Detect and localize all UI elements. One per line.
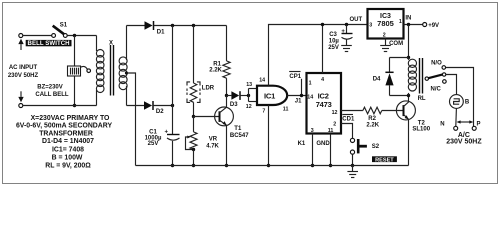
wire base node to VR	[193, 117, 195, 132]
resistor R1	[209, 61, 230, 78]
node junction bell top	[73, 34, 76, 37]
wire pole to bulb	[446, 75, 457, 95]
label C3 value	[328, 32, 339, 51]
svg-text:4: 4	[321, 77, 324, 83]
bell BZ	[68, 66, 91, 76]
node junction C1 ground	[171, 164, 174, 167]
node N terminal	[440, 121, 457, 130]
wire LDR to base node	[193, 102, 195, 116]
node junction relay feed	[407, 23, 410, 26]
wire COM stub	[385, 39, 387, 46]
wire S1 to transformer primary	[67, 35, 96, 37]
node junction IC1 inputs	[247, 94, 250, 97]
wire N/O to P terminal	[446, 68, 474, 127]
transformer X secondary	[119, 26, 127, 106]
svg-text:T1: T1	[234, 126, 242, 132]
svg-text:LDR: LDR	[202, 85, 215, 91]
wire D3 to IC1 inputs	[240, 95, 249, 97]
svg-text:X=230VAC PRIMARY TO: X=230VAC PRIMARY TO	[31, 115, 110, 122]
svg-text:IC1= 7408: IC1= 7408	[52, 146, 84, 153]
label AC INPUT	[8, 65, 39, 79]
svg-text:K1: K1	[298, 141, 306, 147]
svg-text:COM: COM	[389, 41, 403, 47]
svg-text:GND: GND	[316, 141, 330, 147]
LDR	[187, 82, 215, 103]
capacitor C3	[341, 25, 352, 46]
wire bulb to N terminal	[455, 108, 458, 126]
node junction pin4 rail	[321, 23, 324, 26]
svg-text:+: +	[341, 29, 345, 35]
svg-text:J1: J1	[295, 99, 302, 105]
node P terminal	[472, 121, 480, 130]
svg-text:R1: R1	[213, 61, 221, 67]
transistor T2	[396, 96, 430, 166]
voltage regulator IC3 7805	[368, 9, 404, 39]
IC2 7473	[307, 73, 342, 134]
relay armature	[425, 73, 446, 81]
potentiometer VR	[186, 132, 220, 151]
wire IC2 pin12 to R2	[341, 110, 363, 112]
diode D3	[227, 91, 241, 108]
svg-text:230V 50HZ: 230V 50HZ	[446, 138, 482, 145]
svg-text:RESET: RESET	[375, 157, 394, 163]
svg-text:D1: D1	[157, 30, 165, 36]
label parts list	[16, 115, 113, 170]
capacitor C1	[164, 129, 179, 140]
node junction T1 base	[192, 115, 195, 118]
label A/C mains	[446, 132, 482, 145]
svg-text:D1-D4 = 1N4007: D1-D4 = 1N4007	[42, 138, 94, 145]
switch S2	[350, 138, 379, 154]
wire +V unregulated rail	[154, 25, 227, 27]
wire D4 to relay bottom	[390, 95, 409, 97]
node junction relay top	[407, 56, 410, 59]
node N/O contact	[431, 60, 446, 69]
svg-text:2: 2	[383, 32, 386, 38]
node junction bell bottom	[73, 104, 76, 107]
wire IC2 pin2 to S2	[341, 124, 353, 139]
wire R1 to collector node	[226, 78, 228, 95]
svg-text:7: 7	[262, 108, 265, 114]
svg-text:2.2K: 2.2K	[209, 68, 222, 74]
wire S2 to ground rail	[352, 154, 354, 165]
wire AC top to S1	[23, 35, 52, 37]
svg-text:3: 3	[311, 128, 314, 134]
wire IC1 pin14 to +5V rail	[269, 25, 368, 86]
node junction C3 rail	[345, 23, 348, 26]
svg-text:12: 12	[332, 110, 338, 116]
svg-text:7473: 7473	[316, 100, 332, 109]
svg-text:B = 100W: B = 100W	[52, 155, 83, 162]
svg-text:D4: D4	[373, 76, 381, 82]
transistor T1	[215, 96, 250, 166]
node junction VR ground	[192, 164, 195, 167]
svg-text:BZ=230V: BZ=230V	[37, 85, 63, 91]
svg-text:D3: D3	[230, 102, 238, 108]
wire R2 to T2 base	[382, 110, 404, 112]
transformer X core	[111, 45, 114, 96]
svg-text:25V: 25V	[148, 141, 159, 147]
wire rail corner to R1	[226, 26, 228, 61]
svg-text:T2: T2	[418, 120, 426, 126]
wire AC bottom to primary	[23, 105, 97, 107]
wire IC1 pin7 to ground	[268, 105, 270, 166]
svg-text:R2: R2	[368, 116, 376, 122]
wire relay top to D4	[390, 57, 409, 59]
wire IC2 pin11 to ground	[330, 134, 332, 166]
svg-text:B: B	[465, 100, 470, 106]
label BZ call bell	[35, 85, 69, 99]
ground symbol COM	[380, 46, 391, 52]
svg-text:4.7K: 4.7K	[206, 144, 219, 150]
svg-text:11: 11	[328, 128, 334, 134]
node +9V terminal	[423, 23, 439, 30]
node junction pin11 ground	[329, 164, 332, 167]
wire LDR riser	[193, 26, 195, 84]
svg-text:N/O: N/O	[431, 60, 442, 66]
svg-text:13: 13	[246, 82, 252, 88]
node AC input terminal bottom	[18, 91, 23, 107]
svg-text:+9V: +9V	[428, 23, 439, 29]
node junction T1 emitter ground	[225, 164, 228, 167]
svg-text:11: 11	[283, 107, 289, 113]
svg-text:N: N	[440, 121, 444, 127]
wire secondary bottom to D2	[127, 105, 145, 107]
diode D1	[145, 21, 166, 36]
node junction IC1 pin7 ground	[267, 164, 270, 167]
svg-text:2: 2	[333, 122, 336, 128]
node junction C1 rail	[171, 24, 174, 27]
relay RL core	[420, 58, 423, 94]
svg-text:1: 1	[309, 80, 312, 86]
switch S1	[52, 23, 68, 38]
svg-text:7805: 7805	[377, 19, 394, 28]
arrow N to P	[457, 120, 474, 123]
svg-text:TRANSFORMER: TRANSFORMER	[39, 130, 93, 137]
wire VR to ground rail	[193, 150, 195, 166]
svg-text:CD1: CD1	[342, 117, 355, 123]
node junction relay bottom	[407, 94, 410, 97]
svg-text:RL: RL	[418, 96, 426, 102]
svg-text:CALL BELL: CALL BELL	[35, 92, 69, 98]
svg-text:RL = 9V, 200Ω: RL = 9V, 200Ω	[45, 163, 91, 170]
svg-text:D2: D2	[156, 109, 164, 115]
diode D2	[144, 101, 164, 115]
svg-text:2.2K: 2.2K	[366, 123, 379, 129]
svg-text:N/C: N/C	[431, 87, 442, 93]
label BELL SWITCH	[26, 40, 72, 47]
wire secondary top to D1	[127, 25, 145, 27]
svg-text:C3: C3	[329, 32, 337, 38]
wire centre tap to ground rail	[127, 73, 136, 166]
svg-text:10µ: 10µ	[329, 39, 340, 45]
node junction D3 anode	[225, 94, 228, 97]
node N/C contact	[431, 80, 447, 93]
svg-text:OUT: OUT	[350, 17, 363, 23]
svg-text:IN: IN	[405, 15, 411, 21]
node CP1	[289, 72, 303, 98]
svg-text:BELL SWITCH: BELL SWITCH	[28, 40, 70, 47]
op-amp U1: AND gate IC1	[257, 86, 287, 105]
svg-text:1: 1	[399, 19, 402, 25]
svg-text:BC547: BC547	[230, 133, 249, 139]
svg-text:AC INPUT: AC INPUT	[9, 65, 38, 71]
wire IC1 input tie	[249, 89, 258, 102]
svg-text:14: 14	[307, 94, 313, 100]
svg-text:X: X	[109, 41, 113, 47]
svg-text:CP1: CP1	[289, 74, 301, 80]
svg-text:12: 12	[246, 104, 252, 110]
resistor R2	[363, 107, 382, 128]
node AC input terminal top	[18, 34, 23, 51]
svg-text:P: P	[477, 121, 481, 127]
wire +9V to relay coil	[408, 25, 410, 58]
wire bell riser top	[74, 36, 76, 67]
svg-text:6V-0-6V, 500mA SECONDARY: 6V-0-6V, 500mA SECONDARY	[16, 123, 113, 130]
svg-text:IC1: IC1	[264, 92, 275, 101]
diode D4	[373, 58, 394, 96]
ground symbol C3	[341, 46, 352, 52]
wire IC1 output to IC2	[287, 95, 306, 97]
label RESET	[372, 156, 397, 163]
relay RL coil	[408, 58, 416, 96]
node junction LDR rail	[192, 24, 195, 27]
node secondary centre tap	[125, 71, 128, 74]
svg-text:S2: S2	[372, 144, 380, 150]
ground symbol main	[347, 166, 358, 178]
wire IC2 pin3 to ground	[312, 134, 314, 166]
node CD1	[342, 115, 355, 123]
node junction D2 out	[171, 104, 174, 107]
wire IC2 pin4 to rail	[322, 25, 324, 74]
svg-text:VR: VR	[209, 136, 218, 142]
node junction S2 ground	[351, 164, 354, 167]
label C1 value	[145, 129, 162, 147]
wire 7805 IN to +9V	[404, 24, 423, 26]
wire D2 to C1 riser	[153, 105, 173, 107]
node junction pin3 ground	[311, 164, 314, 167]
svg-text:+: +	[164, 129, 168, 135]
svg-text:3: 3	[369, 22, 372, 28]
wire base node to T1	[194, 116, 220, 118]
svg-text:S1: S1	[60, 23, 68, 29]
svg-text:230V 50HZ: 230V 50HZ	[8, 73, 39, 79]
svg-text:SL100: SL100	[412, 127, 430, 133]
lamp B	[450, 95, 470, 109]
svg-text:25V: 25V	[328, 45, 339, 51]
wire C1 riser	[172, 26, 174, 166]
transformer X primary	[96, 36, 104, 106]
svg-text:14: 14	[259, 77, 265, 83]
wire bell riser bottom	[74, 76, 76, 106]
wire ground rail	[136, 165, 409, 167]
